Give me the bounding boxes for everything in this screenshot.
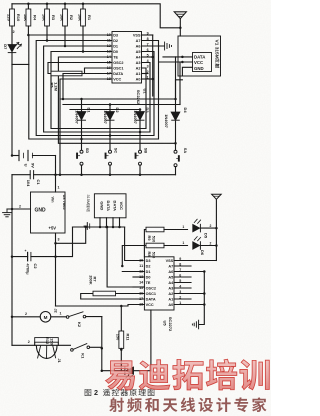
label J1 [57, 358, 62, 363]
wire LED common [215, 199, 217, 260]
wire address bus to ground [199, 272, 204, 325]
wire D3 loop pin10 to A7 [27, 34, 158, 139]
wire receiver data to pin10 [125, 227, 143, 261]
wire left battery rail [11, 64, 13, 155]
wire pin15 stub [133, 286, 144, 288]
switch K1 [71, 344, 90, 352]
wire A4 pin5 stub [142, 56, 153, 58]
resistor R4 10K [26, 4, 31, 35]
label module pins DATA VCC GND [194, 54, 205, 71]
wire D2 loop pin11 to A5 [36, 41, 154, 136]
wire regulator out pin3 [54, 226, 87, 245]
label U5 pin names [146, 259, 174, 307]
wire D4 to SA [175, 121, 177, 150]
capacitor C1 104 [30, 171, 33, 179]
label battery U 9V [23, 163, 35, 168]
wire A3 stub [174, 287, 191, 289]
label C1 104 [26, 179, 41, 187]
button SB [135, 150, 142, 165]
label R9 510 [147, 236, 156, 243]
button SC [105, 150, 112, 165]
switch K2 [66, 312, 86, 319]
wire D1 loop pin12 to A3 [44, 46, 150, 132]
label SC [114, 148, 119, 154]
label receiver pins [99, 201, 124, 212]
watermark subtitle red text [109, 397, 266, 412]
wire regulator GND to ground [7, 208, 31, 211]
LED D8 [102, 367, 151, 379]
wire module DATA net [60, 56, 193, 101]
wire A5 stub [174, 276, 191, 278]
wire aux row [70, 108, 141, 111]
resistor R5 1.2M [48, 63, 112, 76]
label SD [85, 148, 90, 154]
label regulator pin 1 [58, 186, 60, 190]
button SD [76, 150, 83, 165]
wire D8 to IC2 [150, 310, 152, 371]
label U5 SC2272 [163, 317, 173, 332]
node rail junctions [27, 3, 181, 30]
ground mini on A6 [165, 42, 172, 50]
battery U 9V [11, 150, 56, 160]
resistor R1 10K [81, 4, 86, 53]
wire A0 to bus [174, 303, 206, 306]
wire K1 to right vertical [90, 346, 102, 349]
diode D4 1N4007 [171, 112, 180, 121]
wire motor row [12, 312, 40, 317]
label U1 pin numbers [107, 31, 149, 81]
wire receiver to pin14 [106, 226, 145, 287]
label figure caption 图2 遥控器原理图 [85, 388, 155, 397]
label regulator pin 3 [58, 238, 60, 242]
wire A4 stub [174, 282, 191, 284]
resistor R8 510 [122, 243, 187, 265]
label U5 pin numbers [139, 257, 181, 307]
label R4 value 10K [23, 14, 37, 21]
LED D6 [182, 237, 217, 250]
capacitor C3 on rail [84, 223, 90, 230]
wire SC to rail [109, 165, 112, 176]
label R5 1.2M [49, 82, 58, 91]
buzzer J1 [36, 346, 57, 359]
watermark big red text [106, 359, 270, 390]
resistor R11 150 [119, 306, 124, 371]
label pin 2 of LED D7 [13, 30, 15, 34]
resistor R3 10K [45, 4, 50, 42]
label D6 [200, 250, 205, 256]
label R7 200K [88, 275, 97, 284]
label R11 150 [115, 334, 130, 342]
wire SB to rail [139, 165, 142, 176]
wire plus5 rail to VCC pin18 [56, 305, 145, 308]
label D1 1N4007 [75, 107, 92, 123]
wire battery to regulator Vin [54, 156, 57, 193]
module V1 315M transmitter box [178, 36, 221, 76]
label R8 510 [147, 252, 156, 259]
wire D7 cathode to loop [12, 53, 29, 65]
antenna ANT1 transmit [174, 12, 186, 28]
wire A6 to bus [174, 270, 206, 273]
wire D2 cathode to button [109, 121, 112, 151]
wire A7 stub [174, 265, 191, 267]
label R2 value 10K [60, 14, 74, 21]
wire A1 stub [174, 298, 191, 300]
label D3 1N4007 [133, 107, 150, 123]
module U2 315M receiver box [94, 194, 126, 218]
label D5 [204, 233, 209, 239]
wire SA to rail [175, 167, 177, 175]
label D7 [3, 44, 8, 50]
LED D5 [182, 219, 217, 232]
label U3 7805 [62, 195, 67, 211]
wire A0 pin1 stub [142, 78, 153, 80]
wire SD to rail [80, 165, 83, 176]
label K1 [81, 353, 86, 359]
button SA [174, 150, 180, 167]
label K2 [77, 322, 82, 328]
capacitor C2 4700u [11, 249, 56, 261]
wire pin12 stub [121, 265, 144, 272]
wire A1 pin2 stub [142, 73, 149, 75]
wire R12 row [12, 340, 70, 345]
label V1 315M transmit [213, 40, 219, 68]
label U1 pin names [113, 34, 141, 82]
label R12 150 [45, 337, 54, 346]
resistor R7 200K [81, 291, 145, 299]
ground rotated IC2 [192, 320, 198, 329]
label R10 value 220 [7, 14, 21, 22]
wire receiver pin stubs [99, 218, 121, 228]
label J2 [53, 308, 58, 313]
diode D2 1N4007 [106, 105, 115, 121]
op-amp U1 SC2262 encoder IC body [112, 32, 142, 84]
wire motor to K2 [51, 311, 66, 316]
motor M relay J2 [40, 312, 51, 323]
wire VCC row down [59, 79, 112, 176]
wire plus5 feed [54, 243, 57, 306]
diode D1 1N4007 [77, 98, 86, 120]
wire VSS pin9 stub and bus [142, 35, 154, 96]
wire DATA row to module [62, 74, 112, 101]
op-amp U5 SC2272 decoder IC body [144, 257, 174, 310]
ground main [3, 209, 12, 217]
resistor R10 220 [10, 4, 15, 44]
resistor R9 510 [144, 227, 187, 257]
wire button common rail [12, 174, 176, 176]
label SB [144, 148, 149, 154]
wire receiver rail [73, 226, 125, 228]
wire A6 pin7 to ground [142, 45, 165, 47]
wire VSS row to LED common [174, 260, 216, 262]
label regulator pin 2 [19, 205, 21, 209]
resistor R12 150 [35, 338, 59, 346]
label U2 315M receive [86, 195, 90, 212]
wire D3 cathode to button [139, 121, 142, 151]
LED D7 [8, 42, 21, 52]
wire top supply rail [12, 4, 180, 36]
label R1 value 10K [78, 14, 92, 21]
resistor R2 10K [63, 4, 68, 47]
wire left rail mid [11, 175, 13, 257]
wire K2 to right vertical [86, 317, 103, 372]
wire receiver rail left drop [56, 227, 73, 257]
wire A2 to bus [174, 292, 206, 295]
antenna mini LED supply [212, 194, 222, 199]
label U1 SC2262 [136, 88, 147, 105]
label C2 4700u [26, 263, 38, 275]
wire module GND to D4 [176, 67, 193, 112]
wire D0 loop pin13 to A2 [51, 52, 146, 129]
wire D1 cathode to button [80, 121, 83, 151]
wire TE loop pin14 to SA [58, 57, 176, 145]
label R3 value 10K [42, 14, 56, 21]
label D2 1N4007 [103, 107, 120, 123]
wire left rail bottom [11, 257, 14, 346]
label D4 1N4007 [164, 107, 188, 127]
diode D3 1N4007 [136, 110, 145, 121]
wire pin13 stub [133, 276, 144, 278]
label SA [183, 148, 188, 154]
regulator U3 7805 [31, 192, 66, 233]
wire module VCC net [63, 61, 193, 106]
